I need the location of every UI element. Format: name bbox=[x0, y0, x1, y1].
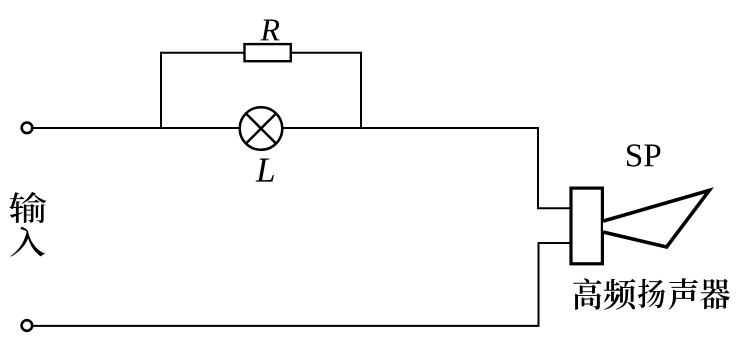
input terminal (bottom) bbox=[22, 320, 33, 331]
wire: parallel branch right vertical riser bbox=[360, 52, 362, 128]
label 高频扬声器 (high-frequency loudspeaker) bbox=[573, 278, 730, 310]
label L (lamp reference) bbox=[256, 158, 274, 181]
wire: right vertical drop from top rail to speaker upper stub bbox=[538, 127, 571, 208]
speaker SP driver (rectangle) bbox=[571, 188, 602, 264]
wire: bottom rail from input terminal to right corner bbox=[33, 243, 571, 326]
label SP (speaker reference) bbox=[627, 144, 660, 166]
lamp L (circle with X cross) bbox=[240, 107, 283, 150]
resistor R (rectangle) bbox=[245, 44, 291, 61]
speaker SP horn (cone) bbox=[603, 190, 709, 247]
wire: top rail right segment (lamp to right corner) bbox=[283, 127, 538, 129]
wire: parallel branch top horizontal (through resistor) bbox=[160, 52, 362, 54]
label 输入 (input) bbox=[9, 192, 46, 257]
input terminal (top) bbox=[22, 123, 33, 134]
wire: parallel branch left vertical riser bbox=[160, 52, 162, 128]
wire: top rail left segment (input terminal to lamp) bbox=[33, 127, 239, 129]
label R (resistor reference) bbox=[260, 19, 279, 40]
